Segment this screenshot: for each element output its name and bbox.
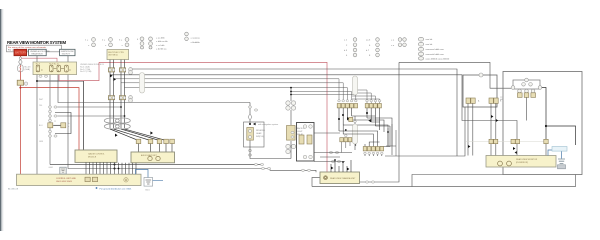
relay circles (511, 78, 542, 93)
wire sensor drop (290, 110, 292, 125)
page edge shadow (0, 9, 5, 231)
footnote star (96, 187, 98, 189)
distribution box top (107, 49, 129, 59)
svg-text:aaaaaab bbbb aaa: aaaaaab bbbb aaa (426, 54, 445, 56)
connector pair on signal wire (365, 181, 368, 183)
wire gray x50 down (49, 75, 51, 165)
wire row2 feed 3 (352, 96, 375, 104)
svg-text:(IN MIRROR): (IN MIRROR) (516, 162, 528, 164)
legend icon group 3 (125, 38, 129, 47)
svg-text:REAR VIEW MONITOR: REAR VIEW MONITOR (516, 158, 538, 161)
wire bus G y88.5 (291, 95, 356, 101)
svg-text:GEAR: GEAR (256, 132, 262, 135)
wire monitor signal down (360, 62, 400, 182)
camera unit box (320, 172, 360, 184)
ground bus pins (85, 177, 98, 181)
relay comp right (61, 123, 66, 128)
relay box2 (131, 152, 175, 163)
switch component (247, 128, 254, 141)
gauge control box (75, 150, 117, 162)
svg-text:GAUGE CONTROL: GAUGE CONTROL (88, 153, 105, 156)
conduit capsule mid lower (353, 124, 358, 144)
cross links between rows (343, 116, 392, 155)
bundle wire 2 (113, 60, 115, 128)
wire ignition drop 2 (67, 56, 69, 62)
arrow marker 1 (110, 74, 113, 77)
svg-text:bb: bb (68, 123, 70, 125)
svg-text:aaa bb: aaa bb (426, 39, 433, 41)
svg-text:REVERSE: REVERSE (256, 130, 266, 132)
svg-text:= cc bbb: = cc bbb (156, 45, 165, 47)
monitor display box (486, 156, 556, 168)
pin row 1 tan (337, 104, 357, 108)
wire fuse out black junction (36, 75, 38, 174)
connector pair under fuse box (39, 75, 42, 77)
fanout pin 2 (148, 139, 153, 143)
chassis ground right (558, 159, 565, 163)
wire ground link y164 (50, 164, 262, 166)
connector pair below relay (48, 130, 57, 137)
svg-text:SW(P-N): SW(P-N) (256, 136, 264, 138)
fanout pin 1 (136, 139, 141, 143)
wire switch drop x250 (249, 103, 251, 125)
svg-text:For wiring of this system see: For wiring of this system see schematic (8, 46, 47, 49)
fanout pin 3 (157, 139, 162, 143)
wire y156 link (385, 107, 465, 156)
blue ground wire (548, 150, 562, 159)
svg-text:BATTERY: BATTERY (15, 52, 26, 55)
option diamond (19, 59, 23, 64)
legend icon group 5 (185, 32, 189, 40)
arrow marker 2 (114, 78, 117, 81)
wires audio unit to bus (119, 163, 137, 174)
svg-text:(50A): (50A) (25, 68, 31, 71)
connector pair below switch (248, 149, 251, 151)
shield pin connectors (489, 139, 548, 143)
connector pair on y164 (254, 163, 257, 165)
svg-text:REAR VIEW CAMERA UNIT: REAR VIEW CAMERA UNIT (330, 177, 356, 180)
wires pins to relay box2 (139, 144, 173, 152)
big oval connector row 1 (104, 118, 130, 123)
bundle wire 4 (124, 60, 126, 128)
interface circles (303, 125, 312, 159)
svg-text:= aaaaaa: = aaaaaa (191, 38, 201, 40)
svg-text:UNIT MICU: UNIT MICU (108, 55, 118, 57)
fanout pin 4 (164, 139, 169, 143)
svg-text:with navigation system: with navigation system (258, 123, 278, 126)
switch outline box (244, 122, 265, 147)
svg-text:aaa bb: aaa bb (426, 44, 433, 46)
legend right column 2 (376, 38, 380, 57)
svg-text:cc: cc (68, 126, 70, 128)
conduit capsule mid upper (353, 76, 358, 95)
wire gray x58 down then right (58, 75, 250, 103)
wire link into camera left (270, 169, 316, 173)
blue stub right of plate (153, 180, 163, 182)
pin row B pair (108, 96, 125, 100)
blue ground link (136, 170, 149, 178)
junction dot bus (118, 168, 120, 170)
camera unit icon (324, 176, 328, 180)
camera interface outline (297, 123, 315, 162)
svg-text:MODULE: MODULE (88, 157, 97, 159)
wire bus E y82 (125, 88, 348, 100)
fuse F1 (18, 65, 23, 72)
fuse elements inside (36, 65, 71, 72)
battery box (14, 49, 27, 55)
svg-text:bbb: bbb (500, 99, 503, 101)
wires staircase to bottom row (339, 125, 390, 147)
svg-text:aaaa bbbbb aaaa bbbbb: aaaa bbbbb aaaa bbbbb (426, 58, 451, 60)
junction dot switch (249, 123, 251, 125)
diagonal fanout 3 (121, 129, 160, 141)
wire audio drops (468, 103, 496, 155)
svg-text:YEL: YEL (39, 105, 42, 107)
svg-text:No.9 No.11: No.9 No.11 (49, 64, 58, 66)
connector on switch drop (248, 106, 251, 108)
red junction dot (19, 87, 21, 89)
svg-text:= aa bbb: = aa bbb (156, 38, 165, 40)
wire bus D y78.5 (121, 83, 343, 100)
pin row 2 tan (365, 104, 381, 108)
svg-text:LIGHT: LIGHT (297, 131, 303, 133)
ground bus icon (124, 178, 128, 182)
wire bus C y75 (114, 79, 340, 100)
fuse box side note text (80, 63, 105, 73)
wire relay to bus (526, 97, 528, 120)
svg-text:No.4: No.4 (36, 64, 40, 66)
svg-text:G401: G401 (49, 167, 54, 169)
extra cluster circles (329, 120, 356, 162)
svg-text:G601: G601 (145, 190, 150, 192)
display box circles (498, 161, 503, 166)
wire black horizontal to box1 (37, 81, 84, 150)
small blue component box (552, 147, 567, 152)
wire x546 drop to box (545, 144, 547, 156)
arrow under row1 (347, 117, 350, 120)
svg-text:UNDER-DASH FUSE BOX: UNDER-DASH FUSE BOX (80, 63, 105, 66)
bundle wire 3 (120, 60, 122, 128)
wire x517 drop (516, 144, 518, 156)
wire shield bottom long (312, 175, 576, 187)
wire shield stub to camera box (312, 178, 320, 187)
interface pin right (307, 135, 312, 144)
audio unit outline box (463, 75, 497, 107)
pin row A pair 1 (108, 68, 125, 72)
wire monitor return upper (399, 62, 512, 88)
arrows on audio drops (491, 115, 493, 118)
diagonal fanout 2 (114, 129, 151, 141)
wire bus F y85 (291, 92, 352, 101)
bottom pin row tan (363, 147, 383, 151)
diagonal fanout 4 (125, 129, 167, 141)
wire row2 feed 2 (358, 93, 372, 104)
wire ignition drop 1 (36, 56, 38, 62)
svg-text:AT-080-08: AT-080-08 (8, 188, 19, 191)
circles above pin row 2 (366, 100, 381, 102)
sensor circles bottom (286, 144, 296, 153)
relay comp left (48, 123, 53, 128)
legend icon group 4 (140, 37, 152, 49)
wire sensor feed from bus (290, 88, 292, 101)
wires below pin row 1 (339, 108, 352, 131)
small ground comp mid (60, 167, 66, 174)
svg-text:IG1 HOT: IG1 HOT (62, 54, 71, 56)
wire row2 feed 4 (352, 99, 380, 104)
svg-text:REAR VIEW MONITOR SYSTEM: REAR VIEW MONITOR SYSTEM (7, 40, 66, 45)
svg-text:aaaaaaa bbbb aaa: aaaaaaa bbbb aaa (426, 49, 445, 51)
arrow marker 3 (150, 131, 153, 134)
relay loop black (55, 113, 71, 134)
under-dash fuse box (33, 62, 77, 75)
sensor component (287, 126, 296, 141)
relay inner box (513, 80, 540, 89)
comp twin circle A (129, 68, 133, 75)
extra cluster dots (345, 129, 347, 131)
legend icon group 1 (92, 38, 96, 47)
circle on audio box top (479, 73, 483, 77)
wire monitor branch right (546, 126, 576, 145)
wire red branch right (20, 88, 79, 150)
connector pair on y168 (261, 167, 264, 169)
ignition switch label box (60, 49, 75, 55)
option diamond on switch drop (248, 114, 252, 121)
ground bus box (17, 174, 142, 185)
connector C1 on battery wire (17, 80, 23, 85)
wire labels column (39, 99, 44, 143)
circles above pin row 1 (338, 100, 357, 102)
junction cluster above camera (334, 159, 336, 161)
wire red main down (19, 72, 21, 80)
wire row2 feed 1 (358, 90, 368, 104)
relay box2 circles (148, 156, 152, 160)
sensor column circles top (286, 101, 296, 110)
svg-text:GRN: GRN (39, 141, 44, 143)
wire bus B y71 (110, 75, 517, 140)
wire lower link y174 (412, 175, 503, 187)
diagonal fanout 1 (110, 129, 139, 141)
legend right column 3 (398, 38, 406, 47)
legend note text (8, 46, 47, 52)
relay label (500, 97, 504, 102)
wire switch bottom link (250, 141, 291, 159)
wire gray x68 down then right (68, 75, 270, 169)
dashed shield line (466, 141, 546, 143)
conduit capsule left (140, 73, 145, 94)
wire column links right (57, 107, 124, 116)
extra cluster pins left of capsule (340, 117, 353, 141)
wires gauge box outputs (86, 162, 115, 174)
extra cluster links (314, 124, 396, 162)
junction dot monitor (545, 125, 547, 127)
svg-text:CONTROL UNIT GND: CONTROL UNIT GND (56, 178, 76, 180)
svg-text:G501 G502 G503: G501 G502 G503 (56, 181, 73, 183)
junction dots on ground links (114, 164, 116, 166)
svg-text:RELAY BOX: RELAY BOX (32, 52, 44, 55)
fanout pin 5 (170, 139, 175, 143)
fuse relay box label (under-hood) (29, 49, 47, 55)
connector column on x50 wire (48, 106, 57, 122)
arrow marker 4 (115, 134, 118, 137)
legend icon group 2 (109, 38, 113, 47)
big oval connector row 2 (104, 124, 130, 129)
legend right column 1 (353, 38, 357, 57)
interface side pair (291, 131, 294, 138)
svg-text:= dd bb aa: = dd bb aa (156, 48, 167, 50)
svg-text:For ground distribution see G5: For ground distribution see G501 (100, 188, 133, 191)
connector pair on camera left wire (301, 169, 304, 171)
wire battery feed red (19, 56, 21, 57)
wire red fusebox out to long feed (59, 62, 99, 80)
audio pins left (466, 98, 475, 103)
legend right column 4 ovals with labels (418, 37, 423, 60)
svg-text:= bbbbbb: = bbbbbb (191, 42, 201, 44)
option arrow note (253, 123, 256, 126)
svg-text:aa: aa (54, 121, 56, 123)
svg-text:= bbb aa bb: = bbb aa bb (156, 41, 168, 43)
monitor unit outline box (503, 72, 582, 175)
wires into camera unit top (331, 160, 351, 172)
wire red branch to fuse box (22, 58, 57, 62)
ground bus text (56, 178, 76, 183)
arrow under row2 (368, 119, 371, 122)
interface pin left (299, 135, 304, 144)
wires bottom row to y156 (365, 155, 382, 157)
audio pins right (489, 98, 498, 103)
relay pins (518, 93, 536, 98)
arrows above camera (331, 167, 333, 170)
legend note box (7, 45, 62, 52)
junction dots under rows (342, 114, 344, 116)
comp twin circle B (129, 96, 133, 103)
circles below bottom row (364, 152, 383, 154)
node A (19, 57, 21, 59)
wire monitor main down (542, 88, 546, 141)
wires into capsule lower (354, 116, 356, 150)
ground plate box (144, 178, 153, 187)
wire red main down 2 (19, 85, 21, 174)
svg-text:No.13 (7.5A): No.13 (7.5A) (80, 70, 92, 73)
wire bus A y67 (131, 69, 457, 156)
wire sensor bottom (290, 141, 292, 159)
wires below pin row 2 (367, 108, 380, 130)
wire red long feed to camera unit (99, 62, 327, 172)
bundle wire 1 (109, 60, 111, 128)
